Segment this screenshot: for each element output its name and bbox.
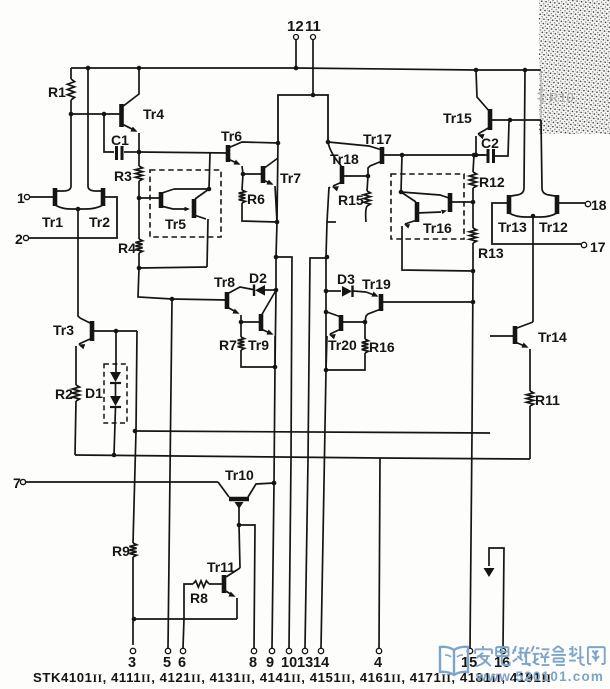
svg-text:R8: R8: [190, 590, 208, 606]
svg-text:10: 10: [281, 655, 297, 671]
resistor R3: [114, 152, 143, 200]
capacitor C2: [476, 122, 509, 163]
svg-text:3: 3: [128, 655, 136, 671]
svg-text:9: 9: [266, 655, 274, 671]
transistor Tr1: [42, 114, 78, 230]
svg-text:Tr14: Tr14: [538, 329, 567, 345]
wire step to pin 13: [305, 258, 326, 648]
pin 3: [128, 648, 136, 671]
pin 16: [494, 648, 510, 671]
svg-text:Tr9: Tr9: [248, 337, 269, 353]
wire Tr11 emitter return: [132, 617, 237, 622]
svg-text:Tr17: Tr17: [363, 131, 392, 147]
svg-text:STK4101II, 4111II, 4121II, 413: STK4101II, 4111II, 4121II, 4131II, 4141I…: [33, 670, 551, 685]
svg-text:D1: D1: [85, 385, 103, 401]
transistor Tr6: [221, 128, 278, 176]
pin 18: [557, 197, 607, 213]
transistor Tr3: [53, 318, 137, 385]
watermark url: [475, 669, 604, 684]
wire R4 bottom to Tr5 emitter: [139, 267, 207, 268]
transistor Tr7: [243, 158, 301, 222]
svg-text:D3: D3: [337, 271, 355, 287]
transistor Tr11: [207, 525, 240, 619]
transistor Tr10: [218, 467, 276, 527]
svg-text:R10: R10: [549, 90, 574, 105]
resistor R4: [118, 198, 143, 270]
pin 9: [266, 648, 275, 671]
pin 13: [297, 648, 313, 671]
resistor R10 (mostly hidden under scan blotch): [538, 0, 610, 134]
svg-text:R12: R12: [479, 174, 505, 190]
resistor R1: [48, 79, 75, 114]
svg-text:12: 12: [287, 18, 304, 35]
wire pin 6 riser: [183, 619, 184, 648]
dashed box around Tr16: [391, 174, 464, 239]
diode D3: [326, 271, 366, 297]
resistor R15: [338, 176, 370, 222]
svg-text:Tr1: Tr1: [42, 214, 63, 230]
svg-text:17: 17: [590, 239, 606, 255]
wire R3/R4 node to Tr5: [139, 197, 161, 199]
wire bias rail (R2/D1 bottom to R11 bottom): [75, 455, 530, 459]
wire pin 4 riser: [379, 458, 380, 648]
node: R1 top corner: [70, 68, 72, 79]
resistor R7: [219, 322, 275, 367]
resistor R12: [469, 155, 504, 204]
pin 15: [461, 648, 477, 671]
transistor Tr19: [362, 276, 473, 322]
transistor Tr14: [490, 322, 567, 391]
svg-text:R6: R6: [247, 191, 265, 207]
svg-text:www.520101.com: www.520101.com: [475, 669, 604, 684]
svg-text:11: 11: [305, 18, 321, 35]
watermark site name: [475, 646, 605, 666]
transistor Tr20: [326, 312, 367, 370]
svg-text:2: 2: [15, 231, 23, 247]
wire step to pin 10: [276, 257, 292, 648]
svg-text:Tr5: Tr5: [165, 216, 186, 232]
svg-text:Tr16: Tr16: [423, 220, 452, 236]
wire tail of output pair: [532, 216, 534, 322]
svg-text:Tr15: Tr15: [443, 110, 472, 126]
svg-text:5: 5: [163, 655, 171, 671]
svg-text:18: 18: [591, 197, 607, 213]
svg-text:Tr2: Tr2: [89, 214, 110, 230]
ground return symbol near pin 16: [484, 548, 505, 648]
svg-text:D2: D2: [249, 270, 267, 286]
transistor Tr5 (current-mirror pair): [161, 153, 211, 267]
watermark logo (open book): [440, 647, 468, 675]
junction dot top rail / Tr4 collector: [137, 66, 142, 71]
wire feedback rail to Tr14 base: [135, 431, 490, 433]
transistor Tr12: [531, 120, 568, 235]
svg-text:R1: R1: [48, 84, 66, 100]
svg-text:R9: R9: [112, 543, 130, 559]
wire pin5 riser: [168, 299, 172, 648]
svg-text:R11: R11: [535, 392, 560, 408]
resistor R11: [526, 391, 560, 459]
svg-text:Tr10: Tr10: [225, 467, 254, 483]
wire V+ top rail: [71, 68, 541, 70]
transistor Tr15: [443, 70, 541, 155]
svg-text:R13: R13: [478, 245, 504, 261]
wire R3/R4 chain down to Tr8 base and pin 5: [138, 268, 174, 301]
junction dot top rail / Tr2 collector line: [86, 66, 91, 71]
svg-text:Tr20: Tr20: [328, 337, 357, 353]
svg-text:13: 13: [297, 655, 313, 671]
svg-text:R3: R3: [114, 168, 132, 184]
pin 12: [287, 18, 304, 70]
diode D2: [249, 270, 276, 296]
pin 5: [163, 648, 171, 671]
svg-text:C1: C1: [111, 132, 129, 148]
transistor Tr16 (current-mirror pair): [399, 155, 473, 271]
junction dot top rail / Tr15 collector: [474, 68, 479, 73]
pin 17: [492, 203, 606, 255]
svg-text:Tr8: Tr8: [214, 274, 235, 290]
pin 10: [281, 648, 297, 671]
pin 8: [249, 648, 257, 671]
transistor Tr8: [172, 274, 253, 324]
svg-text:R2: R2: [55, 386, 73, 402]
svg-text:6: 6: [178, 655, 186, 671]
wire Tr16 base to R12/R13 node: [452, 201, 473, 203]
transistor Tr13: [498, 70, 533, 235]
svg-text:1: 1: [17, 190, 25, 206]
pin 6: [178, 648, 186, 671]
resistor R9: [112, 543, 137, 645]
resistor R6: [239, 174, 277, 222]
caption part numbers: [33, 670, 551, 685]
svg-text:Tr3: Tr3: [53, 322, 74, 338]
transistor Tr18: [328, 142, 370, 191]
svg-text:Tr4: Tr4: [143, 106, 164, 122]
transistor Tr2: [76, 68, 111, 230]
resistor R8: [184, 581, 224, 619]
resistor R13: [469, 202, 503, 273]
wire Tr4 emitter to Tr6 base: [139, 152, 228, 153]
svg-text:R4: R4: [118, 240, 136, 256]
svg-text:C2: C2: [481, 135, 499, 151]
pin 2: [15, 197, 117, 247]
diode D1 (dual, in dashed box): [85, 331, 127, 457]
pin 4: [374, 648, 382, 671]
transistor Tr4: [122, 68, 165, 152]
wire Tr3 base line down to R9/pin3: [133, 331, 138, 543]
wire Tr10 emitter to pin 8: [239, 525, 255, 648]
wire Tr4 base: [69, 112, 121, 117]
wire output block left edge (to pin 9): [272, 141, 281, 648]
svg-text:R15: R15: [338, 192, 364, 208]
transistor Tr17: [328, 131, 402, 176]
svg-text:Tr12: Tr12: [539, 219, 568, 235]
svg-text:Tr18: Tr18: [330, 151, 359, 167]
wire Tr17 base to R12 node: [400, 153, 477, 158]
pin 14: [313, 648, 329, 671]
output block (top rectangle): [278, 93, 328, 143]
svg-text:Tr13: Tr13: [498, 219, 527, 235]
stub R15 return: [327, 221, 336, 223]
svg-text:4: 4: [374, 655, 382, 671]
svg-text:7: 7: [13, 475, 21, 491]
svg-text:Tr6: Tr6: [221, 128, 242, 144]
pin 11: [305, 18, 321, 95]
wire R13 node down to pin 15: [470, 271, 475, 648]
svg-text:8: 8: [249, 655, 257, 671]
resistor R2: [55, 385, 80, 455]
svg-text:R16: R16: [369, 339, 395, 355]
svg-text:Tr19: Tr19: [362, 276, 391, 292]
wire tail of input pair: [78, 209, 80, 318]
junction dot top rail / Tr13 collector line: [523, 68, 528, 73]
svg-text:Tr11: Tr11: [207, 559, 235, 575]
resistor R16: [326, 322, 395, 370]
svg-text:Tr7: Tr7: [280, 170, 301, 186]
capacitor C1: [104, 114, 141, 160]
dashed box around Tr5: [150, 170, 221, 237]
transistor Tr9: [241, 292, 275, 367]
svg-text:R7: R7: [219, 337, 237, 353]
pin 7: [13, 475, 218, 491]
wire Tr15 emitter node: [474, 153, 487, 158]
wire output block right edge (to pin 14): [321, 140, 330, 648]
svg-text:14: 14: [313, 655, 329, 671]
pin 1: [17, 190, 55, 206]
